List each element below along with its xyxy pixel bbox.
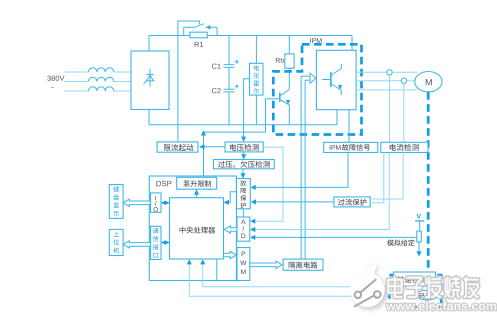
IPM fault signal box bbox=[324, 142, 378, 152]
open arrow A/D to CPU bbox=[224, 226, 237, 233]
wire Rb to brake transistor bbox=[288, 68, 290, 89]
CPU box bbox=[170, 198, 224, 259]
resistor Rb bbox=[288, 36, 290, 54]
wire phase L2 with inductor bbox=[65, 81, 89, 83]
inverter block bbox=[316, 50, 356, 109]
current sensor CT2 bbox=[401, 78, 406, 83]
wire hall to voltage-detect bbox=[244, 79, 250, 140]
wire potentiometer down arrow bbox=[418, 242, 420, 252]
voltage detection box bbox=[225, 142, 263, 152]
I/O box bbox=[151, 193, 162, 212]
PWM box bbox=[237, 248, 250, 281]
wire ov-uv to fault-protect bbox=[242, 169, 244, 177]
wire current-detect to overcurrent B bbox=[372, 153, 384, 203]
A/D box bbox=[237, 217, 250, 241]
wire CPU to pump-up limit bbox=[196, 191, 198, 198]
wire inverter output V bbox=[356, 80, 415, 82]
resistor R1 bbox=[190, 32, 207, 38]
open arrow CPU to PWM bbox=[224, 251, 237, 258]
wire DC- bus bbox=[148, 110, 150, 125]
open arrow PWM to isolation bbox=[250, 261, 282, 268]
current sensor CT1 bbox=[387, 70, 392, 75]
comm interface box bbox=[151, 226, 162, 259]
brake transistor bbox=[279, 93, 281, 102]
wire overcurrent to fault-protect bbox=[252, 201, 334, 203]
wire inverter output U bbox=[356, 71, 417, 73]
bypass contact switch bbox=[183, 27, 185, 35]
drive signal open arrow bbox=[300, 76, 302, 259]
wire inverter fault to IPM-fault box bbox=[348, 110, 350, 143]
wire voltage-detect to current-limit bbox=[200, 146, 226, 148]
keyboard display box bbox=[109, 185, 123, 219]
wire DC+ bus bbox=[148, 36, 150, 52]
V supply symbol bbox=[417, 214, 421, 219]
DSP block bbox=[149, 176, 236, 281]
encoder disc label bbox=[419, 293, 431, 299]
wire contact control loop bbox=[178, 21, 200, 142]
current detection box bbox=[381, 142, 428, 152]
wire capacitor branch bbox=[228, 36, 230, 65]
over/under voltage detect box bbox=[214, 160, 275, 169]
fault protection box bbox=[237, 179, 251, 209]
host computer box bbox=[109, 229, 123, 255]
speed detection box bbox=[394, 272, 436, 286]
wire speed feedback B bbox=[189, 261, 389, 297]
wire pump-limit to brake gate bbox=[265, 99, 267, 132]
wire analog setpoint to A/D bbox=[252, 236, 417, 238]
pump-up limit box bbox=[177, 177, 217, 189]
wire CT1 drop bbox=[389, 75, 391, 142]
wire fault-protect to CPU bbox=[225, 192, 237, 203]
wire phase L3 with inductor bbox=[65, 90, 89, 92]
encoder feedback dashed wire bbox=[427, 92, 430, 275]
open arrow I/O to keyboard bbox=[123, 199, 150, 206]
wire inverter output W bbox=[356, 89, 417, 91]
overcurrent protection box bbox=[334, 197, 370, 207]
setpoint potentiometer bbox=[417, 231, 422, 242]
IPM module dashed boundary bbox=[273, 44, 361, 134]
wire fault-protect to A/D bbox=[242, 209, 244, 217]
wire phase L1 with inductor bbox=[65, 71, 89, 73]
wire voltage-detect to ov-uv bbox=[243, 152, 245, 158]
analog setpoint label bbox=[387, 239, 415, 246]
wire current-detect to overcurrent A bbox=[372, 153, 404, 200]
capacitor C1 bbox=[224, 64, 235, 66]
wire CT2 drop bbox=[403, 83, 405, 142]
wire speed feedback A bbox=[203, 261, 390, 287]
arrow I/O-CPU bbox=[161, 202, 170, 204]
wire CPU aux down bbox=[216, 259, 218, 281]
wire hall branch bbox=[255, 36, 257, 64]
voltage hall sensor box bbox=[250, 63, 264, 95]
motor M bbox=[415, 72, 442, 92]
current-limit start box bbox=[157, 142, 198, 152]
open arrow comm to host bbox=[123, 241, 150, 248]
wire voltage-detect to A/D bbox=[252, 147, 283, 221]
wire current-detect to A/D bbox=[252, 153, 390, 230]
inverter IGBT symbol bbox=[330, 72, 332, 87]
rectifier bridge bbox=[131, 51, 169, 110]
wire IPM-fault to fault-protect bbox=[252, 153, 348, 188]
arrow comm-CPU bbox=[161, 242, 170, 244]
isolation circuit box bbox=[283, 259, 323, 270]
encoder ellipse bbox=[416, 290, 438, 300]
speed detection dashed box bbox=[389, 275, 441, 307]
capacitor C2 bbox=[224, 88, 235, 90]
380V three-phase source label bbox=[47, 76, 64, 81]
